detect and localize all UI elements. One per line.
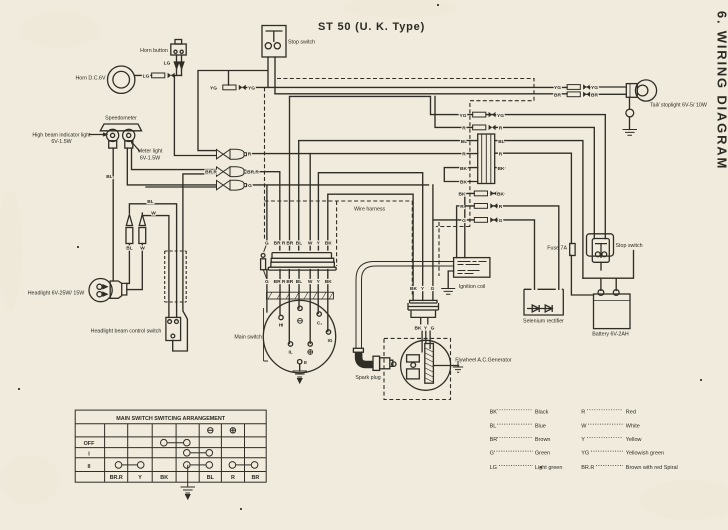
svg-text:Y: Y	[138, 475, 142, 481]
svg-text:Battery 6V-2AH: Battery 6V-2AH	[592, 332, 629, 338]
svg-text:YG: YG	[248, 85, 255, 91]
svg-text:BL: BL	[147, 199, 153, 205]
svg-text:IG: IG	[328, 338, 333, 343]
svg-text:YG: YG	[591, 85, 598, 91]
svg-text:C₁: C₁	[317, 321, 322, 326]
svg-text:R: R	[460, 204, 464, 210]
svg-text:Wire harness: Wire harness	[354, 207, 386, 213]
svg-text:BL: BL	[126, 246, 132, 252]
svg-text:BL: BL	[296, 241, 302, 247]
svg-text:BR: BR	[252, 475, 260, 481]
svg-text:Selenium rectifier: Selenium rectifier	[523, 319, 564, 325]
svg-text:BR.R: BR.R	[247, 170, 259, 176]
svg-text:Stop switch: Stop switch	[288, 40, 315, 46]
svg-text:BK: BK	[160, 475, 168, 481]
svg-text:BL: BL	[207, 475, 215, 481]
svg-text:YG: YG	[460, 113, 467, 119]
svg-text:6. WIRING DIAGRAM: 6. WIRING DIAGRAM	[715, 11, 728, 170]
svg-text:G: G	[265, 279, 269, 285]
svg-text:Red: Red	[626, 409, 636, 415]
svg-text:Green: Green	[535, 451, 550, 457]
svg-text:BR: BR	[490, 437, 498, 443]
svg-text:YG: YG	[497, 113, 504, 119]
svg-text:Ignition coil: Ignition coil	[459, 284, 486, 290]
svg-text:Flywheel A.C.Generator: Flywheel A.C.Generator	[455, 358, 511, 364]
svg-text:G: G	[265, 241, 269, 247]
svg-text:Brown: Brown	[535, 437, 551, 443]
svg-text:R: R	[462, 126, 466, 132]
svg-text:Yellow: Yellow	[626, 437, 642, 443]
svg-text:HI: HI	[279, 323, 284, 328]
svg-text:E: E	[304, 360, 307, 365]
svg-text:R: R	[248, 152, 252, 158]
svg-text:BK: BK	[459, 192, 466, 198]
svg-text:II: II	[88, 464, 91, 470]
svg-text:BK: BK	[325, 241, 332, 247]
svg-text:Horn D.C.6V: Horn D.C.6V	[75, 76, 105, 82]
svg-text:BR: BR	[591, 93, 598, 99]
svg-text:BL: BL	[106, 174, 112, 180]
svg-text:Headlight 6V-25W/ 15W: Headlight 6V-25W/ 15W	[28, 291, 85, 297]
svg-text:R: R	[462, 151, 466, 157]
svg-text:LG: LG	[143, 73, 150, 79]
svg-text:W: W	[151, 211, 156, 217]
svg-text:LG: LG	[490, 465, 497, 471]
svg-text:BK: BK	[325, 279, 332, 285]
svg-text:R: R	[499, 151, 503, 157]
svg-text:G: G	[248, 183, 252, 189]
svg-text:G: G	[431, 326, 435, 332]
svg-text:High beam indicator light: High beam indicator light	[32, 133, 91, 139]
svg-text:Y: Y	[581, 437, 585, 443]
svg-text:BR.R: BR.R	[581, 465, 594, 471]
svg-text:BR R: BR R	[274, 279, 286, 285]
svg-text:G: G	[431, 286, 435, 292]
svg-text:BR.R: BR.R	[110, 475, 123, 481]
svg-text:YG: YG	[581, 451, 589, 457]
svg-text:YG: YG	[554, 85, 561, 91]
svg-text:Stop switch: Stop switch	[616, 243, 643, 249]
svg-text:Light green: Light green	[535, 465, 563, 471]
svg-text:BL: BL	[498, 139, 504, 145]
svg-text:BK: BK	[460, 166, 467, 172]
svg-text:BK: BK	[415, 326, 422, 332]
svg-text:BR: BR	[554, 93, 561, 99]
svg-text:Yellowish green: Yellowish green	[626, 451, 664, 457]
svg-text:G: G	[462, 218, 466, 224]
svg-text:6V-1.5W: 6V-1.5W	[51, 139, 71, 145]
svg-text:Headlight beam control switch: Headlight beam control switch	[91, 329, 162, 335]
svg-text:R: R	[499, 126, 503, 132]
svg-text:Spark plug: Spark plug	[355, 375, 380, 381]
svg-text:BL: BL	[490, 424, 497, 430]
svg-text:Speedometer: Speedometer	[105, 116, 137, 122]
svg-text:W: W	[308, 241, 313, 247]
svg-text:BK: BK	[497, 192, 504, 198]
svg-text:BK: BK	[460, 180, 467, 186]
svg-text:W: W	[140, 246, 145, 252]
svg-text:LG: LG	[164, 61, 171, 67]
svg-text:ST 50 (U. K. Type): ST 50 (U. K. Type)	[318, 21, 425, 33]
svg-text:BR: BR	[286, 241, 293, 247]
svg-text:OFF: OFF	[84, 441, 95, 447]
svg-text:Meter light: Meter light	[138, 149, 163, 155]
svg-text:BK: BK	[498, 166, 505, 172]
svg-text:R: R	[231, 475, 235, 481]
svg-text:W: W	[581, 424, 587, 430]
svg-text:W: W	[308, 279, 313, 285]
svg-text:G: G	[499, 218, 503, 224]
svg-text:YG: YG	[210, 85, 217, 91]
svg-text:Blue: Blue	[535, 424, 546, 430]
svg-text:IL: IL	[288, 350, 292, 355]
svg-text:BL: BL	[296, 279, 302, 285]
svg-text:BR R: BR R	[274, 241, 286, 247]
svg-text:R: R	[581, 409, 585, 415]
svg-text:G: G	[490, 451, 494, 457]
svg-text:BK: BK	[410, 286, 417, 292]
svg-text:Horn button: Horn button	[140, 48, 168, 54]
svg-text:Black: Black	[535, 409, 549, 415]
svg-text:Tail/ stoplight 6V-5/ 10W: Tail/ stoplight 6V-5/ 10W	[650, 103, 707, 109]
svg-text:White: White	[626, 424, 640, 430]
svg-text:R: R	[499, 204, 503, 210]
svg-text:BR: BR	[286, 279, 293, 285]
svg-text:Brown with red Spiral: Brown with red Spiral	[626, 465, 678, 471]
svg-text:MAIN SWITCH SWITCING ARRANGEME: MAIN SWITCH SWITCING ARRANGEMENT	[116, 416, 226, 422]
svg-text:6V-1.5W: 6V-1.5W	[140, 156, 160, 162]
svg-text:BR.R: BR.R	[205, 170, 217, 176]
svg-text:BK: BK	[490, 409, 498, 415]
svg-text:BL: BL	[461, 139, 467, 145]
svg-text:Main switch: Main switch	[234, 335, 262, 341]
svg-text:Fuse 7A: Fuse 7A	[547, 246, 567, 252]
